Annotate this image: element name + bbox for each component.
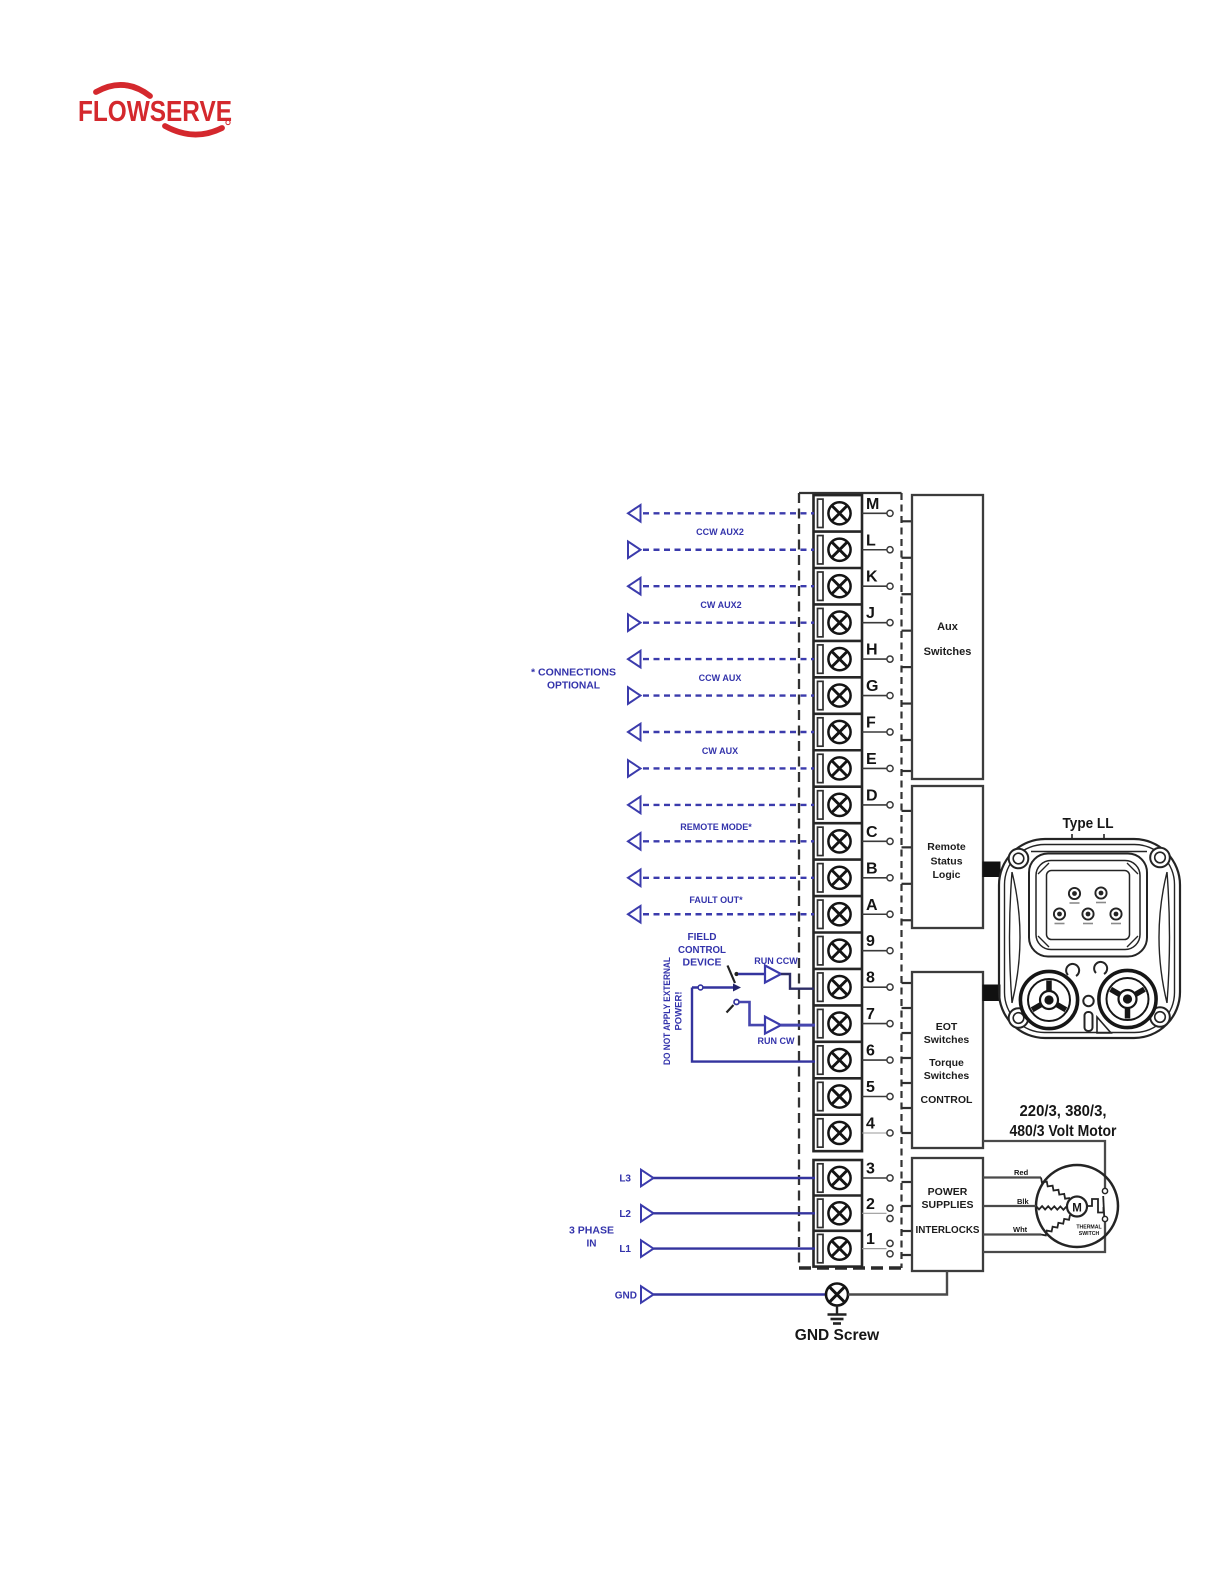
wire field-control common	[692, 984, 741, 992]
Type LL center detail	[1066, 962, 1111, 1033]
svg-text:M: M	[1072, 1203, 1082, 1215]
svg-text:RUN CCW: RUN CCW	[754, 956, 798, 966]
svg-text:4: 4	[866, 1115, 875, 1132]
label FAULT OUT*	[689, 895, 743, 905]
svg-text:CCW AUX2: CCW AUX2	[696, 527, 744, 537]
ground symbol	[828, 1306, 847, 1324]
svg-text:Status: Status	[930, 856, 962, 868]
GND screw	[826, 1284, 848, 1306]
svg-text:Red: Red	[1014, 1168, 1029, 1177]
cable Remote Status Logic to Type LL	[983, 862, 1000, 877]
svg-text:L3: L3	[619, 1174, 631, 1185]
label motor voltage	[1010, 1103, 1117, 1140]
svg-text:GND: GND	[615, 1291, 637, 1302]
buffer RUN CCW	[765, 966, 781, 983]
svg-text:C: C	[866, 824, 878, 841]
terminal M	[818, 496, 894, 528]
svg-text:2: 2	[866, 1196, 875, 1213]
svg-text:GND Screw: GND Screw	[795, 1327, 880, 1344]
svg-text:POWER: POWER	[928, 1186, 968, 1198]
svg-text:CONTROL: CONTROL	[921, 1094, 973, 1106]
input L1	[619, 1240, 815, 1257]
svg-text:8: 8	[866, 970, 875, 987]
wire to terminal 6	[692, 988, 815, 1062]
terminal 7	[818, 1006, 894, 1038]
terminal strip dashed enclosure	[799, 493, 902, 1268]
winding Red	[1041, 1178, 1070, 1199]
svg-text:6: 6	[866, 1043, 875, 1060]
terminal L	[818, 532, 894, 564]
svg-text:OPTIONAL: OPTIONAL	[547, 681, 600, 692]
terminal H	[818, 642, 894, 674]
svg-text:IN: IN	[587, 1239, 597, 1250]
label CCW AUX	[699, 673, 742, 683]
wire row H (dashed)	[628, 651, 814, 668]
terminal J	[818, 605, 894, 637]
svg-text:L2: L2	[619, 1209, 631, 1220]
svg-text:B: B	[866, 860, 878, 877]
label CW AUX	[702, 746, 738, 756]
svg-text:Remote: Remote	[927, 841, 966, 853]
label CONNECTIONS OPTIONAL	[531, 668, 616, 692]
EOT / Torque Switches CONTROL box	[912, 972, 983, 1148]
wire row F (dashed)	[628, 724, 814, 741]
wire row A (dashed)	[628, 906, 814, 923]
svg-text:DO NOT APPLY EXTERNAL: DO NOT APPLY EXTERNAL	[662, 957, 673, 1065]
svg-text:Switches: Switches	[924, 1034, 970, 1046]
label Type LL	[1063, 815, 1114, 832]
wire motor bottom	[983, 1222, 1105, 1253]
terminal 5	[818, 1079, 894, 1111]
svg-text:Torque: Torque	[929, 1057, 964, 1069]
terminal 9	[818, 933, 894, 965]
cable EOT to Type LL	[983, 985, 1000, 1001]
svg-text:Logic: Logic	[933, 869, 961, 881]
svg-text:EOT: EOT	[936, 1021, 958, 1033]
svg-text:THERMAL: THERMAL	[1076, 1225, 1102, 1231]
svg-text:FAULT OUT*: FAULT OUT*	[689, 895, 743, 905]
input L2	[619, 1205, 815, 1222]
svg-text:D: D	[866, 787, 878, 804]
terminal K	[818, 569, 894, 601]
wire to terminal 8	[781, 974, 814, 989]
label REMOTE MODE*	[680, 822, 752, 832]
input GND	[615, 1286, 826, 1303]
svg-text:K: K	[866, 569, 878, 586]
svg-text:Switches: Switches	[924, 646, 972, 658]
wire row L (dashed)	[628, 541, 814, 558]
terminal 8	[818, 970, 894, 1002]
wire row C (dashed)	[628, 833, 814, 850]
svg-text:INTERLOCKS: INTERLOCKS	[916, 1224, 980, 1236]
label FIELD CONTROL DEVICE	[678, 931, 727, 969]
thermal switch	[1088, 1188, 1108, 1221]
Type LL knob left	[1020, 971, 1077, 1028]
label CCW AUX2	[696, 527, 744, 537]
wire to terminal 7	[781, 1024, 815, 1027]
Type LL corner screws	[1009, 848, 1170, 1028]
wire row G (dashed)	[628, 687, 814, 704]
label RUN CW	[758, 1036, 795, 1046]
svg-text:L1: L1	[619, 1244, 631, 1255]
terminal 6	[818, 1043, 894, 1075]
terminal B	[818, 860, 894, 892]
label RUN CCW	[754, 956, 798, 966]
terminal A	[818, 897, 894, 929]
svg-text:H: H	[866, 642, 878, 659]
wire row B (dashed)	[628, 870, 814, 887]
winding Wht	[1041, 1215, 1070, 1235]
input L3	[619, 1170, 815, 1187]
terminal 4	[818, 1115, 894, 1147]
label THERMAL SWITCH	[1076, 1225, 1102, 1238]
svg-text:* CONNECTIONS: * CONNECTIONS	[531, 668, 616, 679]
svg-text:L: L	[866, 532, 876, 549]
Type LL control panel	[1029, 854, 1147, 957]
terminal D	[818, 787, 894, 819]
terminal block group 3-1	[814, 1160, 863, 1267]
terminal 3	[818, 1161, 894, 1193]
label GND Screw	[795, 1327, 880, 1344]
svg-text:A: A	[866, 897, 878, 914]
label CW AUX2	[700, 600, 741, 610]
switch RUN CW	[727, 1000, 766, 1026]
svg-text:9: 9	[866, 933, 875, 950]
Power Supplies Interlocks box	[912, 1158, 983, 1271]
wire row K (dashed)	[628, 578, 814, 595]
terminal G	[818, 678, 894, 710]
svg-text:RUN CW: RUN CW	[758, 1036, 795, 1046]
svg-text:Wht: Wht	[1013, 1225, 1028, 1234]
motor M symbol	[1067, 1197, 1087, 1217]
Type LL knob right	[1099, 970, 1156, 1027]
svg-text:REMOTE MODE*: REMOTE MODE*	[680, 822, 752, 832]
svg-text:CCW AUX: CCW AUX	[699, 673, 742, 683]
wire row M (dashed)	[628, 505, 814, 522]
wire Red	[983, 1168, 1041, 1178]
svg-text:480/3 Volt Motor: 480/3 Volt Motor	[1010, 1123, 1117, 1140]
svg-text:F: F	[866, 715, 876, 732]
svg-text:M: M	[866, 496, 879, 513]
svg-text:G: G	[866, 678, 878, 695]
svg-text:1: 1	[866, 1231, 875, 1248]
label 3 PHASE IN	[569, 1226, 614, 1250]
wire row E (dashed)	[628, 760, 814, 777]
terminal C	[818, 824, 894, 856]
svg-text:CW AUX2: CW AUX2	[700, 600, 741, 610]
svg-text:Blk: Blk	[1017, 1197, 1030, 1206]
buffer RUN CW	[765, 1017, 781, 1034]
wire row D (dashed)	[628, 797, 814, 814]
terminal F	[818, 715, 894, 747]
svg-text:7: 7	[866, 1006, 875, 1023]
svg-text:Type LL: Type LL	[1063, 815, 1114, 832]
svg-text:DEVICE: DEVICE	[683, 957, 722, 969]
svg-text:FIELD: FIELD	[688, 931, 717, 943]
switch RUN CCW	[728, 966, 766, 984]
svg-text:Switches: Switches	[924, 1070, 970, 1082]
wire row J (dashed)	[628, 614, 814, 631]
svg-text:J: J	[866, 605, 875, 622]
svg-text:Aux: Aux	[937, 621, 959, 633]
terminal 2	[818, 1196, 894, 1228]
svg-text:SUPPLIES: SUPPLIES	[922, 1199, 974, 1211]
winding Blk	[1036, 1206, 1067, 1210]
Type LL enclosure	[999, 834, 1180, 1038]
wire Blk	[983, 1197, 1036, 1206]
svg-text:CW AUX: CW AUX	[702, 746, 738, 756]
terminal block group M-4	[814, 495, 863, 1151]
svg-text:3: 3	[866, 1161, 875, 1178]
Remote Status Logic box	[912, 786, 983, 928]
svg-text:E: E	[866, 751, 877, 768]
svg-text:SWITCH: SWITCH	[1079, 1231, 1100, 1237]
wire GND to power supplies	[848, 1271, 947, 1295]
svg-text:220/3, 380/3,: 220/3, 380/3,	[1020, 1103, 1107, 1120]
svg-text:CONTROL: CONTROL	[678, 944, 727, 956]
terminal E	[818, 751, 894, 783]
label DO NOT APPLY EXTERNAL POWER!	[662, 957, 685, 1065]
terminal 1	[818, 1231, 894, 1263]
Flowserve logo	[78, 85, 232, 135]
svg-text:3 PHASE: 3 PHASE	[569, 1226, 614, 1237]
motor circle	[1036, 1165, 1118, 1247]
svg-text:FLOWSERVE: FLOWSERVE	[78, 96, 232, 128]
wire Wht	[983, 1225, 1041, 1235]
svg-text:5: 5	[866, 1079, 875, 1096]
svg-text:POWER!: POWER!	[674, 991, 685, 1030]
wire EOT to motor top	[983, 1141, 1105, 1189]
Type LL buttons	[1054, 887, 1122, 923]
Aux Switches box	[912, 495, 983, 779]
bus stubs to logic boxes	[902, 521, 913, 1255]
